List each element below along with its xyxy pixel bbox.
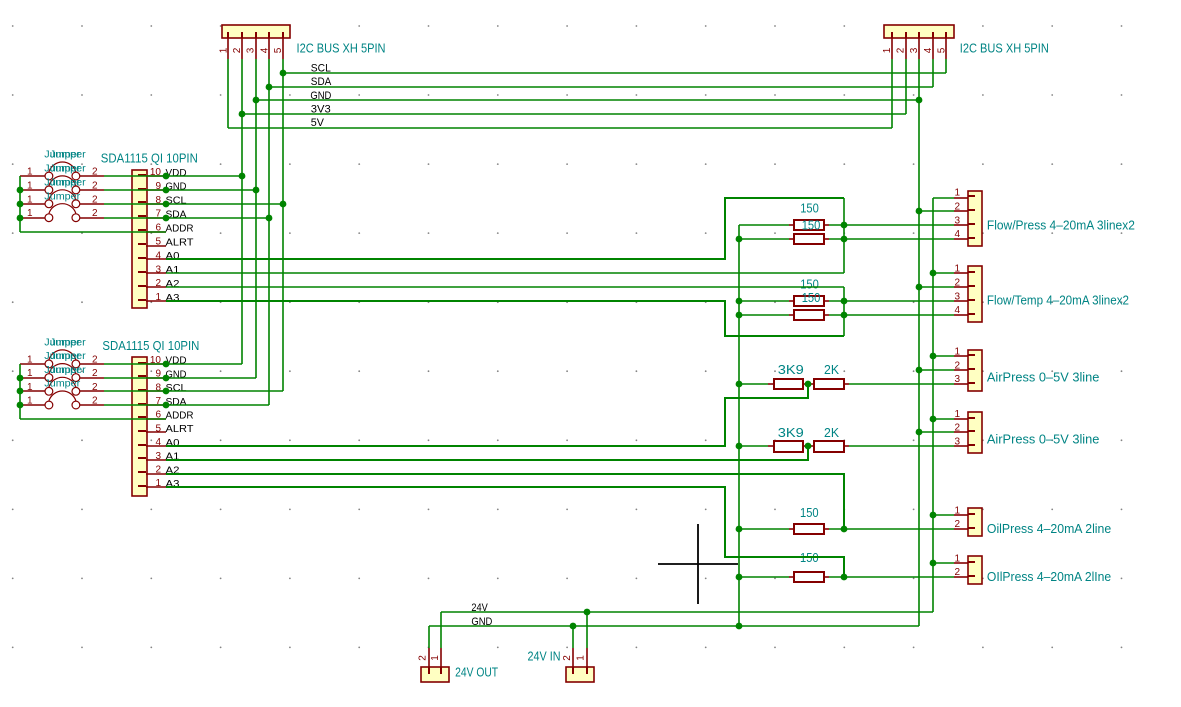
svg-text:4: 4 (155, 437, 161, 448)
wire 3V3 horizontal (242, 113, 906, 115)
svg-text:24V IN: 24V IN (528, 650, 561, 664)
connector U1 pin name A0 (166, 250, 180, 262)
wire P5 pin1 (933, 355, 954, 357)
label I2C BUS XH 5PIN (left) (297, 41, 386, 55)
connector P8 pin number 1 (954, 553, 960, 564)
svg-text:3: 3 (909, 47, 920, 53)
junction 24V/IN pin1 (584, 609, 591, 616)
junction rail1/jumper4 (17, 215, 24, 222)
jumper JP3 pin1 stub (20, 203, 45, 205)
jumper JP1 pin number 1 (27, 167, 33, 178)
svg-text:2: 2 (92, 382, 98, 393)
connector U2 pin 6 stub (138, 417, 166, 419)
svg-text:2K: 2K (824, 426, 840, 440)
connector U1 pin 6 stub (138, 230, 166, 232)
junction U1 GND pin end (163, 187, 170, 194)
resistor R7 3K9 left stub (768, 445, 774, 447)
wire R10 right to P6 pin2 (829, 576, 954, 578)
connector U1 pin 4 stub (138, 258, 166, 259)
svg-text:150: 150 (802, 291, 821, 305)
resistor R3 150 body (794, 296, 824, 306)
connector J2 body I2C BUS XH 5PIN (top right) (884, 25, 954, 38)
junction common vert/R9 (736, 526, 743, 533)
connector P1 pin 2 stub (428, 648, 430, 674)
label 24V OUT (455, 666, 498, 680)
wire J1 pin5 vertical (SCL bus) (282, 59, 284, 391)
connector P3 pin number 3 (954, 215, 960, 226)
junction R10 right (841, 574, 848, 581)
connector U1 pin name SCL (166, 195, 187, 207)
connector U1 pin 10 stub (138, 175, 166, 176)
svg-text:150: 150 (800, 506, 819, 520)
svg-text:2: 2 (232, 47, 243, 53)
jumper JP4+1 left pad (45, 360, 53, 368)
connector U2 pin name SDA (166, 396, 187, 408)
svg-text:4: 4 (923, 47, 934, 53)
svg-text:Jumper: Jumper (50, 177, 87, 188)
connector P2 pin 1 stub (586, 648, 588, 674)
connector U1 pin 7 stub (138, 216, 166, 218)
connector U1 pin number 2 (155, 278, 161, 289)
connector U2 pin number 4 (155, 437, 161, 448)
resistor R8 2K left stub (808, 445, 814, 447)
connector J1 pin 3 stub (255, 32, 257, 59)
svg-text:5: 5 (155, 423, 161, 434)
connector P4 body (968, 266, 982, 322)
connector P8 pin 2 stub (954, 576, 975, 577)
connector U1 pin number 8 (155, 195, 161, 206)
connector U2 pin 10 stub (138, 363, 166, 364)
junction GND bus/U1 (253, 187, 260, 194)
jumper JP4 pin1 stub (20, 217, 45, 219)
connector J2 pin 4 stub (932, 32, 934, 59)
svg-text:2: 2 (155, 465, 161, 476)
junction GND row/J2 pin3 (916, 97, 923, 104)
resistor R6 2K body (814, 379, 844, 389)
resistor R5 value 3K9 (778, 363, 804, 377)
connector P8 body (968, 556, 982, 584)
wire R6 right (849, 383, 954, 385)
wire jumpers to U2 SCL (104, 390, 283, 392)
jumper JP1 pin2 stub (80, 175, 104, 177)
wire A3(U2) to R10 right (166, 487, 844, 577)
wire GND horizontal (bottom) (429, 625, 919, 627)
svg-text:2: 2 (92, 368, 98, 379)
resistor R2 150 right stub (824, 238, 829, 240)
connector P5 pin number 2 (954, 360, 960, 371)
label 24V IN (528, 650, 561, 664)
resistor R9 150 right stub (824, 528, 829, 530)
junction rail2/jumper7 (17, 388, 24, 395)
connector J1 pin number 1 (219, 47, 230, 53)
connector U2 pin 5 stub (138, 431, 166, 432)
jumper JP1 arc (49, 162, 76, 172)
resistor R3 150 left stub (789, 300, 794, 302)
jumper JP2 pin2 stub (80, 189, 104, 191)
wire G2 bottom loop (166, 301, 844, 336)
connector P6 pin number 3 (954, 436, 960, 447)
connector U1 pin name ALRT (166, 236, 195, 248)
connector P7 pin 1 stub (954, 514, 975, 515)
jumper JP4+4 left pad (45, 401, 53, 409)
resistor R6 2K right stub (844, 383, 849, 385)
junction chain/P5 pin1 (930, 353, 937, 360)
svg-text:1: 1 (27, 194, 33, 205)
svg-text:Jumper: Jumper (50, 351, 87, 362)
resistor R8 2K body (814, 441, 844, 452)
svg-text:3: 3 (954, 291, 960, 302)
wire 24V horizontal (441, 611, 933, 613)
wire resistor common vertical (738, 225, 740, 626)
junction U2 SDA pin end (163, 402, 170, 409)
connector U2 pin 3 stub (138, 458, 166, 460)
jumper JP4+4 pin2 stub (80, 404, 104, 406)
wire R1 right to P3 pin3 (829, 224, 954, 226)
connector P6 pin 3 stub (954, 445, 975, 446)
junction SCL bus/U1 (280, 201, 287, 208)
resistor R1 150 left stub (789, 224, 794, 226)
jumper JP4 pin number 2 (92, 208, 98, 219)
connector J1 pin number 4 (259, 47, 270, 53)
svg-text:3: 3 (954, 215, 960, 226)
connector J1 pin number 3 (246, 47, 257, 53)
wire jumpers to U2 SDA (104, 404, 269, 406)
label OIlPress 4–20mA 2lIne (P8) (987, 570, 1111, 584)
net label 3V3 (311, 104, 331, 116)
svg-text:1: 1 (954, 188, 960, 199)
wire J2 pin3 GND vertical (long) (918, 59, 920, 626)
svg-text:1: 1 (954, 505, 960, 516)
wire 24V OUT pin1 vertical (440, 612, 442, 648)
svg-text:1: 1 (954, 553, 960, 564)
svg-text:Flow/Temp 4–20mA 3linex2: Flow/Temp 4–20mA 3linex2 (987, 294, 1129, 308)
wire jumpers to U2 GND (104, 377, 256, 379)
net label SCL (311, 63, 331, 75)
connector P5 pin number 3 (954, 374, 960, 385)
wire SDA horizontal (269, 86, 933, 88)
connector P7 pin 2 stub (954, 528, 975, 529)
connector P4 pin 2 stub (954, 286, 975, 287)
resistor R2 150 left stub (789, 238, 794, 240)
connector U2 pin 9 stub (138, 376, 166, 378)
wire R9 right to P5 pin2 (829, 528, 954, 530)
junction GND vert/P6 pin2 (916, 429, 923, 436)
wire P3 pin2 (919, 210, 954, 212)
svg-text:2: 2 (92, 180, 98, 191)
jumper JP3 pin2 stub (80, 203, 104, 205)
connector U2 pin number 5 (155, 423, 161, 434)
junction U1 SDA pin end (163, 215, 170, 222)
connector U1 pin name A3 (166, 292, 180, 304)
cursor cross (658, 524, 738, 604)
svg-text:1: 1 (27, 368, 33, 379)
svg-text:SDA: SDA (311, 76, 332, 88)
wire A1 to G1 vertical (166, 272, 844, 274)
wire J2 pin1 to 5V (891, 59, 893, 128)
label Flow/Temp 4–20mA 3linex2 (P4) (987, 294, 1129, 308)
connector P7 body (968, 508, 982, 536)
svg-text:2K: 2K (824, 363, 840, 377)
connector P1 pin number 1 (430, 655, 441, 661)
wire R5 left (739, 383, 768, 385)
svg-text:24V OUT: 24V OUT (455, 666, 498, 680)
label Flow/Press 4–20mA 3linex2 (P3) (987, 219, 1135, 233)
svg-text:1: 1 (27, 208, 33, 219)
jumper JP2 pin number 2 (92, 180, 98, 191)
resistor R10 150 right stub (824, 576, 829, 578)
wire G1 right vertical (843, 198, 845, 273)
jumper JP1 left pad (45, 172, 53, 180)
label SDA1115 QI 10PIN (lower) (102, 339, 199, 353)
junction G1 vert/R2 (841, 236, 848, 243)
resistor R5 3K9 left stub (768, 383, 774, 385)
jumper JP4+3 pin number 2 (92, 382, 98, 393)
wire P6 pin1 (933, 418, 954, 420)
connector P6 pin number 1 (954, 409, 960, 420)
connector P4 pin number 1 (954, 264, 960, 275)
connector U2 pin name SCL (166, 382, 187, 394)
wire P4 pin1 (933, 272, 954, 274)
connector U1 pin name A2 (166, 278, 180, 290)
connector U1 pin number 5 (155, 237, 161, 248)
resistor R7 3K9 right stub (803, 445, 808, 447)
svg-text:2: 2 (954, 519, 960, 530)
svg-text:SDA1115 QI 10PIN: SDA1115 QI 10PIN (101, 151, 198, 165)
junction chain/P7 pin1 (930, 512, 937, 519)
connector U1 pin name GND (166, 181, 187, 193)
connector P5 pin 2 stub (954, 369, 975, 370)
connector U2 pin number 1 (155, 478, 161, 489)
connector U1 pin name A1 (166, 264, 180, 276)
jumper JP4+4 right pad (72, 401, 80, 409)
connector U1 pin number 10 (150, 167, 162, 178)
svg-text:2: 2 (92, 194, 98, 205)
junction chain/P8 pin1 (930, 560, 937, 567)
junction common vert/R10 (736, 574, 743, 581)
jumper JP4+1 arc (49, 350, 76, 360)
wire jumpers to U1 SDA (104, 217, 269, 219)
svg-text:OIlPress 4–20mA 2lIne: OIlPress 4–20mA 2lIne (987, 570, 1111, 584)
svg-text:A1: A1 (166, 264, 180, 276)
svg-text:3V3: 3V3 (311, 104, 331, 116)
resistor R8 2K right stub (844, 445, 849, 447)
connector P8 pin 1 stub (954, 562, 975, 563)
svg-text:2: 2 (562, 655, 573, 661)
connector U2 pin name ADDR (166, 410, 194, 422)
junction R5/R6 mid node (805, 381, 812, 388)
junction SCL/pin5 (280, 70, 287, 77)
svg-text:5: 5 (273, 47, 284, 53)
svg-text:1: 1 (219, 47, 230, 53)
connector U2 pin 4 stub (138, 445, 166, 446)
label AirPress 0–5V 3line (P6) (987, 433, 1100, 447)
connector J1 pin number 5 (273, 47, 284, 53)
wire R3 left (739, 300, 789, 302)
connector J2 pin number 4 (923, 47, 934, 53)
resistor R6 2K left stub (808, 383, 814, 385)
connector P4 pin 3 stub (954, 300, 975, 301)
net label 24V (471, 602, 488, 614)
connector J2 pin number 1 (882, 47, 893, 53)
junction rail2/jumper8 (17, 402, 24, 409)
wire G2 right vertical (843, 287, 845, 336)
wire P7 pin1 (933, 514, 954, 516)
wire J2 pin4 to SDA (932, 59, 934, 87)
svg-text:4: 4 (259, 47, 270, 53)
svg-text:SDA1115 QI 10PIN: SDA1115 QI 10PIN (102, 339, 199, 353)
connector P5 pin 3 stub (954, 383, 975, 384)
connector U2 pin number 9 (155, 369, 161, 380)
connector U1 pin number 9 (155, 181, 161, 192)
connector U2 pin 7 stub (138, 404, 166, 405)
jumper JP3 arc (49, 190, 76, 200)
svg-text:2: 2 (92, 208, 98, 219)
net label SDA (311, 76, 332, 88)
wire P4 pin2 (919, 286, 954, 288)
connector U2 pin name A0 (166, 437, 180, 449)
jumper JP4+2 arc (49, 364, 76, 374)
svg-text:AirPress 0–5V 3line: AirPress 0–5V 3line (987, 433, 1100, 447)
connector U1 pin number 6 (155, 223, 161, 234)
connector U1 pin 3 stub (138, 272, 166, 273)
jumper JP2 arc (49, 176, 76, 186)
connector P2 pin number 2 (562, 655, 573, 661)
svg-text:2: 2 (954, 423, 960, 434)
jumper JP4 pin2 stub (80, 217, 104, 219)
resistor R9 value 150 (800, 506, 819, 520)
svg-text:5V: 5V (311, 117, 325, 129)
svg-text:150: 150 (802, 219, 821, 233)
wire R10 left (739, 576, 789, 578)
connector U2 body SDA1115 QI 10PIN (132, 357, 147, 496)
wire J2 pin2 to 3V3 (905, 59, 907, 114)
jumper JP4+2 pin2 stub (80, 377, 104, 379)
label AirPress 0–5V 3line (P5) (987, 370, 1100, 384)
jumper JP4+3 pin number 1 (27, 382, 33, 393)
svg-text:ADDR: ADDR (166, 410, 194, 422)
svg-text:2: 2 (92, 396, 98, 407)
jumper JP1 value Jumper (44, 150, 86, 161)
junction chain/P4 pin1 (930, 270, 937, 277)
connector U1 pin 8 stub (138, 202, 166, 204)
resistor R9 150 body (794, 524, 824, 534)
connector P4 pin number 3 (954, 291, 960, 302)
resistor R10 value 150 (800, 551, 819, 565)
resistor R4 value 150 (802, 291, 821, 305)
resistor R8 value 2K (824, 426, 840, 440)
resistor R1 150 body (794, 220, 824, 230)
svg-text:1: 1 (155, 292, 161, 303)
jumper JP4+3 pin2 stub (80, 390, 104, 392)
connector U2 pin 8 stub (138, 390, 166, 391)
connector P7 pin number 1 (954, 505, 960, 516)
resistor R1 value 150 (800, 201, 819, 215)
label OilPress 4–20mA 2line (P7) (987, 522, 1111, 536)
svg-text:1: 1 (155, 478, 161, 489)
connector J1 body I2C BUS XH 5PIN (top left) (222, 25, 290, 38)
wire R2 left (739, 238, 789, 240)
connector P4 pin 1 stub (954, 272, 975, 273)
wire A2(U2) to R9 right (166, 474, 844, 529)
svg-text:1: 1 (27, 382, 33, 393)
jumper JP2 pin number 1 (27, 180, 33, 191)
connector U1 pin 5 stub (138, 244, 166, 246)
connector P5 pin number 1 (954, 347, 960, 358)
junction R7/R8 mid node (805, 443, 812, 450)
connector P4 pin number 2 (954, 277, 960, 288)
junction G1 vert/R1 (841, 222, 848, 229)
jumper JP4+4 pin1 stub (20, 404, 45, 406)
jumper JP4 value Jumper (44, 191, 81, 202)
resistor R5 3K9 right stub (803, 383, 808, 385)
svg-text:1: 1 (954, 347, 960, 358)
connector J1 pin 5 stub (282, 32, 284, 59)
wire A0 loop (166, 198, 844, 259)
jumper JP2 value Jumper (44, 164, 86, 175)
svg-text:A3: A3 (166, 292, 180, 304)
connector P3 pin 1 stub (954, 196, 975, 198)
jumper JP1 pin1 stub (20, 175, 45, 177)
wire pin1 chain vertical (932, 198, 934, 612)
svg-text:GND: GND (471, 616, 492, 628)
svg-text:1: 1 (27, 180, 33, 191)
connector U2 pin number 8 (155, 382, 161, 393)
resistor R5 3K9 body (774, 379, 803, 389)
connector U1 pin 9 stub (138, 189, 166, 190)
connector P3 pin 3 stub (954, 224, 975, 225)
connector P4 pin 4 stub (954, 314, 975, 315)
connector P4 pin number 4 (954, 305, 960, 316)
wire J1 pin2 vertical (3V3/VDD bus) (241, 59, 243, 364)
svg-text:GND: GND (310, 90, 331, 102)
svg-text:4: 4 (155, 250, 161, 261)
connector P3 pin number 1 (954, 188, 960, 199)
connector U2 pin number 10 (150, 355, 162, 366)
connector U2 pin number 3 (155, 451, 161, 462)
svg-text:5: 5 (936, 47, 947, 53)
junction VDD bus/U1 (239, 173, 246, 180)
jumper JP3 left pad (45, 200, 53, 208)
svg-text:3: 3 (155, 451, 161, 462)
junction U2 GND pin end (163, 375, 170, 382)
jumper JP4 arc (49, 204, 76, 214)
svg-text:2: 2 (954, 567, 960, 578)
connector U1 pin number 4 (155, 250, 161, 261)
wire R1 left (739, 224, 789, 226)
connector P1 body 24V OUT (421, 667, 449, 682)
wire P6 pin2 (919, 431, 954, 433)
junction common vert/GND row (736, 623, 743, 630)
jumper JP1 pin number 2 (92, 167, 98, 178)
connector U2 pin name VDD (166, 355, 187, 367)
connector J1 pin 4 stub (268, 32, 270, 59)
wire 24V IN pin1 vertical (586, 612, 588, 648)
jumper JP4+2 pin1 stub (20, 377, 45, 379)
svg-text:1: 1 (954, 409, 960, 420)
svg-text:1: 1 (27, 167, 33, 178)
junction G2 vert/R4 (841, 312, 848, 319)
jumper JP4+2 value Jumper (44, 351, 86, 362)
wire 24V OUT pin2 vertical (428, 626, 430, 648)
net label GND (bottom) (471, 616, 492, 628)
svg-text:2: 2 (417, 655, 428, 661)
svg-text:3K9: 3K9 (778, 363, 804, 377)
net label 5V (311, 117, 325, 129)
wire R2 right to P3 pin4 (829, 238, 954, 240)
svg-text:3K9: 3K9 (778, 426, 804, 440)
svg-text:150: 150 (800, 277, 819, 291)
wire R4 left (739, 314, 789, 316)
